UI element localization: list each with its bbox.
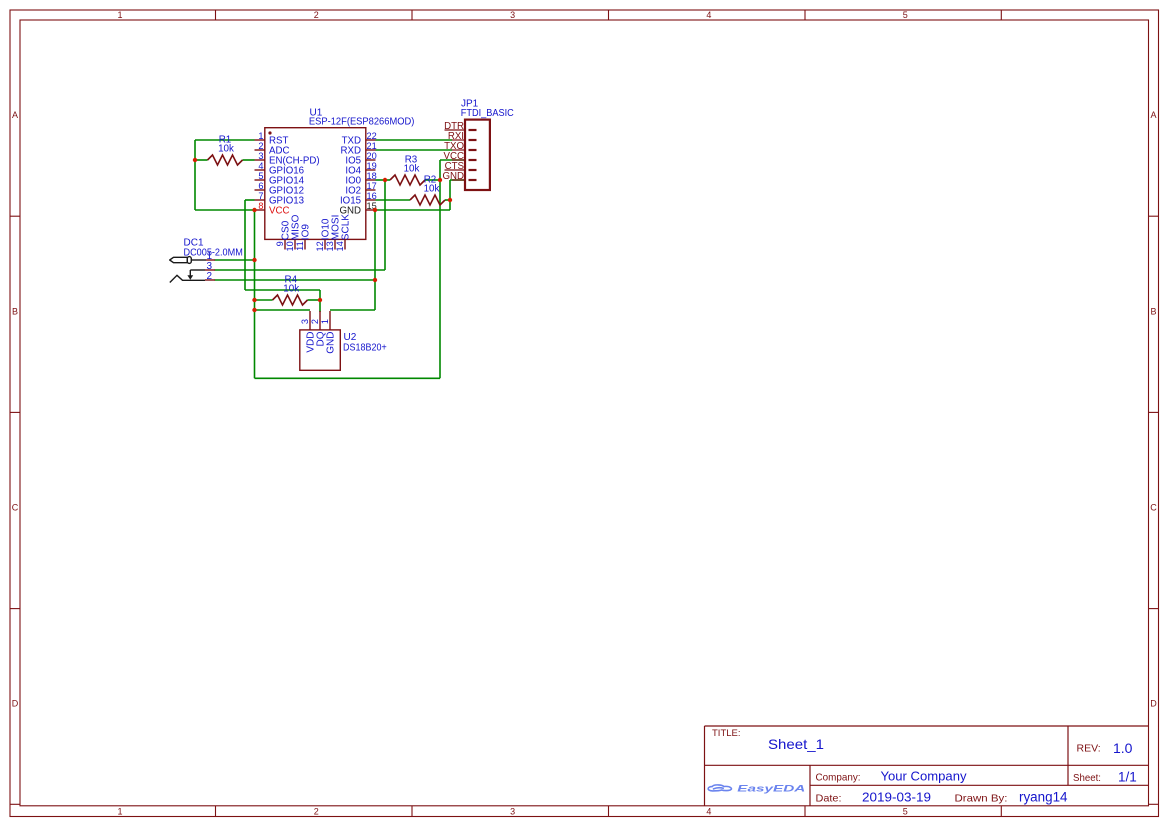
svg-text:DS18B20+: DS18B20+ — [343, 343, 387, 354]
svg-text:REV:: REV: — [1077, 743, 1101, 755]
svg-text:B: B — [12, 306, 18, 316]
svg-text:5: 5 — [903, 10, 908, 20]
svg-text:A: A — [1150, 110, 1156, 120]
svg-text:1: 1 — [117, 10, 122, 20]
svg-text:Sheet:: Sheet: — [1073, 772, 1101, 784]
svg-text:4: 4 — [706, 806, 711, 816]
svg-text:13: 13 — [325, 241, 335, 251]
svg-text:18: 18 — [367, 171, 377, 181]
svg-text:3: 3 — [510, 806, 515, 816]
svg-text:ryang14: ryang14 — [1019, 790, 1068, 805]
svg-text:C: C — [1150, 503, 1157, 513]
svg-text:1.0: 1.0 — [1113, 740, 1133, 756]
svg-text:U2: U2 — [344, 332, 357, 343]
svg-text:1/1: 1/1 — [1118, 770, 1137, 785]
svg-text:TITLE:: TITLE: — [712, 728, 741, 739]
svg-text:2: 2 — [258, 141, 263, 151]
svg-text:Your Company: Your Company — [881, 769, 968, 784]
svg-text:10k: 10k — [424, 184, 440, 195]
svg-text:SCLK: SCLK — [341, 214, 352, 240]
svg-text:10k: 10k — [218, 144, 234, 155]
svg-text:C: C — [12, 503, 19, 513]
svg-text:20: 20 — [367, 151, 377, 161]
svg-text:1: 1 — [320, 319, 330, 324]
svg-text:FTDI_BASIC: FTDI_BASIC — [461, 108, 514, 119]
svg-text:21: 21 — [367, 141, 377, 151]
svg-text:19: 19 — [367, 161, 377, 171]
svg-text:9: 9 — [275, 241, 285, 246]
svg-text:22: 22 — [367, 131, 377, 141]
svg-text:8: 8 — [258, 201, 263, 211]
svg-text:17: 17 — [367, 181, 377, 191]
svg-text:GND: GND — [326, 332, 337, 354]
svg-text:A: A — [12, 110, 18, 120]
svg-text:ESP-12F(ESP8266MOD): ESP-12F(ESP8266MOD) — [309, 117, 415, 128]
svg-text:1: 1 — [258, 131, 263, 141]
svg-text:2: 2 — [314, 10, 319, 20]
svg-text:3: 3 — [258, 151, 263, 161]
svg-text:4: 4 — [258, 161, 263, 171]
svg-text:Company:: Company: — [816, 772, 861, 784]
svg-text:4: 4 — [706, 10, 711, 20]
svg-text:10k: 10k — [283, 284, 299, 295]
svg-text:Date:: Date: — [816, 793, 842, 805]
svg-text:D: D — [12, 699, 19, 709]
svg-text:B: B — [1150, 306, 1156, 316]
svg-text:10k: 10k — [404, 164, 420, 175]
svg-text:IO9: IO9 — [301, 224, 312, 241]
svg-text:EasyEDA: EasyEDA — [737, 784, 805, 794]
svg-text:Sheet_1: Sheet_1 — [768, 736, 824, 752]
svg-text:2: 2 — [310, 319, 320, 324]
svg-text:10: 10 — [285, 241, 295, 251]
svg-text:3: 3 — [300, 319, 310, 324]
svg-text:5: 5 — [903, 806, 908, 816]
svg-text:1: 1 — [117, 806, 122, 816]
svg-text:3: 3 — [510, 10, 515, 20]
svg-text:6: 6 — [258, 181, 263, 191]
svg-text:2: 2 — [207, 271, 213, 282]
svg-text:16: 16 — [367, 191, 377, 201]
svg-text:Drawn By:: Drawn By: — [955, 793, 1008, 805]
svg-text:2019-03-19: 2019-03-19 — [862, 790, 931, 805]
svg-text:GND: GND — [442, 171, 464, 182]
svg-text:DC005-2.0MM: DC005-2.0MM — [184, 247, 243, 258]
svg-text:5: 5 — [258, 171, 263, 181]
svg-text:11: 11 — [295, 241, 305, 251]
svg-text:VCC: VCC — [269, 206, 289, 217]
svg-text:7: 7 — [258, 191, 263, 201]
svg-text:12: 12 — [315, 241, 325, 251]
svg-text:2: 2 — [314, 806, 319, 816]
svg-text:14: 14 — [335, 241, 345, 251]
svg-text:D: D — [1150, 699, 1157, 709]
